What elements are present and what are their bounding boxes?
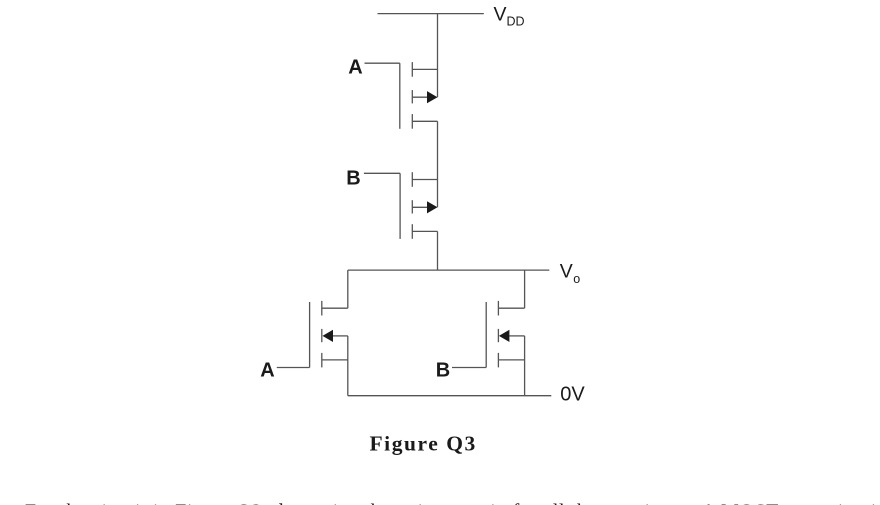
svg-text:V: V [494, 4, 507, 26]
svg-text:DD: DD [507, 15, 525, 29]
svg-text:o: o [573, 272, 580, 286]
svg-text:A: A [260, 359, 274, 381]
svg-text:A: A [348, 57, 362, 79]
svg-text:Figure Q3: Figure Q3 [370, 431, 477, 455]
svg-text:B: B [346, 168, 360, 190]
svg-text:0V: 0V [560, 383, 585, 405]
svg-text:For the circuit in Figure Q3,: For the circuit in Figure Q3, determine … [25, 500, 880, 505]
svg-text:V: V [560, 261, 573, 283]
svg-text:B: B [436, 359, 450, 381]
